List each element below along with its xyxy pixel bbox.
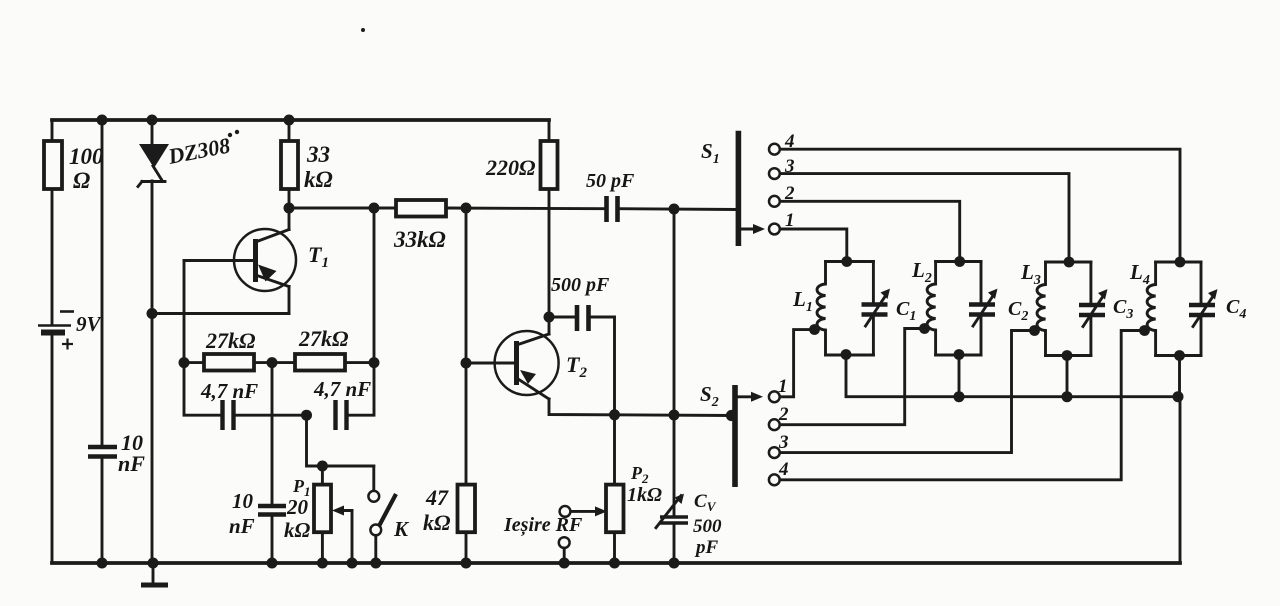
node L1 top xyxy=(841,256,852,267)
resistor 33k horizontal xyxy=(393,200,446,252)
node A collector xyxy=(284,203,295,214)
wire junction down to P1 xyxy=(321,466,324,485)
wire T1 base down xyxy=(183,261,186,363)
wire ground rail xyxy=(52,561,1180,565)
node top rail / zener branch xyxy=(147,115,158,126)
wire 220 down to T2 collector xyxy=(548,189,551,334)
wire T2 emitter down and right xyxy=(549,399,731,416)
wire 27k-left node down to caps xyxy=(184,363,221,416)
svg-text:pF: pF xyxy=(694,537,719,558)
wire 4.7nF right up to 27k right node xyxy=(349,208,374,415)
svg-text:27kΩ: 27kΩ xyxy=(205,328,256,353)
wire S2 contact3 to L3 tap xyxy=(780,331,1035,453)
inductor L1 xyxy=(792,262,826,356)
svg-text:1kΩ: 1kΩ xyxy=(627,484,662,506)
node L4 bottom xyxy=(1174,350,1185,361)
node rail K xyxy=(370,558,381,569)
wire S1 contact3 to L3 top xyxy=(780,174,1069,262)
node P1 top junction xyxy=(317,461,328,472)
node top rail / 33k branch xyxy=(284,115,295,126)
wire 33kh to 50pF xyxy=(446,207,604,211)
svg-text:1: 1 xyxy=(778,376,788,397)
wire common to ground rail xyxy=(1179,397,1182,563)
node 27k right / feedback xyxy=(369,357,380,368)
svg-text:27kΩ: 27kΩ xyxy=(298,326,349,351)
node rail 47k xyxy=(461,558,472,569)
node L2 bottom xyxy=(954,349,965,360)
svg-text:9V: 9V xyxy=(76,312,103,336)
resistor 27k second xyxy=(272,326,374,371)
node B feedback tap xyxy=(369,203,380,214)
svg-text:4,7 nF: 4,7 nF xyxy=(313,377,371,401)
switch S2 bar xyxy=(700,382,763,487)
wire T1 collector node across (y 208) xyxy=(289,207,396,210)
contact S2-2 xyxy=(769,419,780,430)
wire S2 contact4 to L4 tap xyxy=(780,331,1144,480)
wire T1 emitter down xyxy=(288,287,291,314)
node base/27k left xyxy=(179,357,190,368)
node L2 top xyxy=(954,256,965,267)
node rail RF out xyxy=(559,558,570,569)
capacitor 4.7nF first xyxy=(200,379,258,430)
node L1 tap xyxy=(809,324,820,335)
svg-text:4,7 nF: 4,7 nF xyxy=(200,379,258,403)
node zener / T1 emitter wire xyxy=(147,308,158,319)
wire top supply rail xyxy=(52,118,549,122)
svg-text:100: 100 xyxy=(69,144,104,169)
contact S2-1 xyxy=(769,391,780,402)
capacitor C4 trimmer xyxy=(1156,262,1247,356)
svg-text:kΩ: kΩ xyxy=(284,518,311,542)
contact S1-2 xyxy=(769,196,780,207)
wire 50pF to S1 xyxy=(620,207,736,211)
wire S1 contact2 to L2 top xyxy=(780,201,960,261)
node rail P1 xyxy=(317,558,328,569)
transistor T1 xyxy=(184,229,329,291)
svg-text:K: K xyxy=(393,517,410,541)
node 500pF left xyxy=(544,312,555,323)
node L3 top xyxy=(1064,257,1075,268)
capacitor 50pF xyxy=(586,170,635,222)
node L3 tap xyxy=(1029,325,1040,336)
contact S1-4 xyxy=(769,144,780,155)
node L4 tap xyxy=(1139,325,1150,336)
wire S2 contact1 to L1 tap xyxy=(780,330,814,397)
wire centre node down xyxy=(271,363,274,506)
wire left column mid xyxy=(51,189,54,324)
node C T2 base xyxy=(461,203,472,214)
svg-text:kΩ: kΩ xyxy=(423,510,451,535)
wire tank common bottom xyxy=(846,354,1180,397)
contact S1-3 xyxy=(769,168,780,179)
node L2 tap xyxy=(919,323,930,334)
wire node C down to T2 base xyxy=(465,208,468,363)
capacitor 10nF (phase shift) xyxy=(229,489,286,538)
svg-text:kΩ: kΩ xyxy=(304,167,333,192)
wire S1 contact1 to L1 top xyxy=(780,229,847,262)
potentiometer P2 1k xyxy=(559,463,662,563)
node top rail / 10nF branch xyxy=(97,115,108,126)
resistor 220 ohm xyxy=(485,120,558,189)
wire 500pF right down to P2 xyxy=(613,317,616,485)
contact S2-3 xyxy=(769,447,780,458)
wire zener to ground rail xyxy=(151,181,154,563)
svg-text:50 pF: 50 pF xyxy=(586,170,635,192)
ground symbol xyxy=(141,563,168,585)
contact S2-4 xyxy=(769,474,780,485)
svg-text:220Ω: 220Ω xyxy=(485,155,536,180)
svg-text:10: 10 xyxy=(232,489,254,513)
wire S1 contact4 to L4 top xyxy=(780,149,1180,262)
wire caps junction to P1/K xyxy=(307,415,374,466)
contact S1-1 xyxy=(769,224,780,235)
wire S2 contact2 to L2 tap xyxy=(780,329,924,425)
node tank3 bottom wire xyxy=(1062,391,1073,402)
switch S1 bar xyxy=(701,131,765,246)
capacitor 4.7nF second xyxy=(313,377,371,430)
wire left column top xyxy=(51,120,54,141)
svg-text:nF: nF xyxy=(229,514,255,538)
node between 27k resistors xyxy=(267,357,278,368)
resistor 47k xyxy=(423,363,475,563)
capacitor 10nF (supply) xyxy=(88,430,145,476)
node Cv top xyxy=(669,204,680,215)
svg-text:2: 2 xyxy=(778,404,789,425)
node S2 pole xyxy=(726,410,737,421)
inductor L2 xyxy=(911,258,936,355)
node Cv / emitter wire xyxy=(669,410,680,421)
resistor 33k (collector load) xyxy=(281,120,333,208)
node tank2 bottom wire xyxy=(954,391,965,402)
wire T1 emitter to zener column xyxy=(152,312,289,315)
svg-text:Ω: Ω xyxy=(73,168,90,193)
diode DZ308 zener xyxy=(138,120,239,187)
inductor L4 xyxy=(1129,260,1156,356)
svg-text:Ieșire RF: Ieșire RF xyxy=(503,514,583,537)
node rail P1 wiper xyxy=(347,558,358,569)
node L1 bottom xyxy=(841,349,852,360)
svg-text:4: 4 xyxy=(778,459,789,480)
node P2 top xyxy=(609,409,620,420)
svg-text:500: 500 xyxy=(693,516,722,537)
potentiometer P1 20k xyxy=(284,476,352,563)
capacitor C1 trimmer xyxy=(826,262,917,356)
capacitor C2 trimmer xyxy=(936,262,1029,356)
resistor 100 ohm xyxy=(44,141,62,189)
wire left column bottom xyxy=(51,336,54,563)
battery 9V xyxy=(38,312,103,350)
capacitor Cv variable 500pF xyxy=(656,209,722,563)
wire 10nF to ground rail xyxy=(101,456,104,563)
speck xyxy=(361,28,365,32)
node T2 base xyxy=(461,358,472,369)
wire 10nF branch xyxy=(101,120,104,447)
node rail zener xyxy=(148,558,159,569)
svg-text:3: 3 xyxy=(778,432,789,453)
wire T1 collector up xyxy=(288,208,291,230)
svg-text:nF: nF xyxy=(118,451,145,476)
node tank4 bottom wire xyxy=(1173,391,1184,402)
wire L4 bottom down xyxy=(1178,356,1181,397)
transistor T2 xyxy=(466,331,587,399)
svg-text:20: 20 xyxy=(286,495,309,519)
wire 10nF2 to rail xyxy=(271,514,274,563)
node L4 top xyxy=(1175,257,1186,268)
wire L2 bottom down xyxy=(958,355,961,397)
inductor L3 xyxy=(1020,260,1046,356)
capacitor C3 trimmer xyxy=(1046,262,1134,356)
wire L3 bottom down xyxy=(1066,356,1069,397)
svg-text:47: 47 xyxy=(425,485,449,510)
node rail 10nF2 xyxy=(267,558,278,569)
capacitor 500pF xyxy=(549,274,615,331)
node rail P2 xyxy=(609,558,620,569)
switch K xyxy=(368,466,410,563)
svg-text:33: 33 xyxy=(306,142,330,167)
resistor 27k first xyxy=(184,328,272,371)
svg-text:500 pF: 500 pF xyxy=(551,274,610,296)
wire between 4.7nF caps xyxy=(236,414,307,417)
node rail 10nF xyxy=(97,558,108,569)
node L3 bottom xyxy=(1062,350,1073,361)
node rail Cv xyxy=(669,558,680,569)
node caps junction xyxy=(301,410,312,421)
svg-text:33kΩ: 33kΩ xyxy=(393,227,446,252)
